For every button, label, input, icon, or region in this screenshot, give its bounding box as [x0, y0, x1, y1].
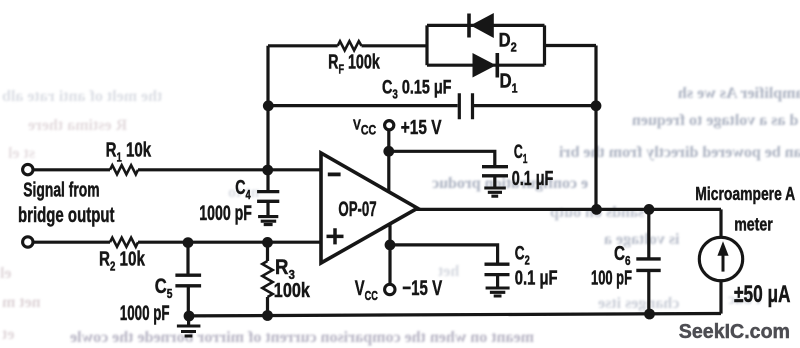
bleed-through mirrored text row H right	[728, 291, 761, 309]
label C1	[514, 142, 528, 166]
junction dot C5 bottom	[184, 311, 195, 322]
capacitor C2 plates	[485, 264, 510, 274]
bleed-through mirrored text row A left	[2, 88, 162, 106]
svg-text:C2: C2	[515, 243, 530, 268]
label R1 10k	[106, 138, 152, 165]
meter arrow head	[717, 241, 728, 256]
diode D1 cathode bar	[495, 53, 499, 78]
svg-text:Microampere A: Microampere A	[695, 184, 795, 204]
label R2 10k	[99, 247, 146, 274]
svg-text:D2: D2	[499, 29, 517, 54]
wire box to right vertical	[545, 44, 597, 47]
svg-text:100k: 100k	[274, 278, 311, 301]
label +-50 uA	[734, 281, 791, 307]
capacitor C5 bottom stub	[187, 286, 190, 316]
svg-text:VCC: VCC	[355, 276, 378, 303]
capacitor C1 bottom stub	[493, 176, 496, 187]
label C6	[614, 242, 631, 268]
svg-text:Signal from: Signal from	[23, 178, 99, 201]
resistor RF zigzag	[338, 41, 362, 50]
ground for C1	[484, 188, 506, 196]
ground for C4	[258, 217, 278, 225]
label 100 pF (C6)	[591, 267, 632, 290]
bleed-through mirrored text row H mid	[598, 295, 679, 313]
label bridge output	[18, 202, 115, 226]
bleed-through mirrored text row D right	[432, 175, 588, 193]
wire R1 to op-amp	[138, 168, 321, 171]
label C2	[515, 243, 530, 268]
junction dot inverting input	[262, 165, 273, 176]
svg-text:1000 pF: 1000 pF	[199, 201, 252, 225]
ground for C2	[486, 288, 510, 296]
label D2	[499, 29, 517, 54]
svg-text:R2 10k: R2 10k	[99, 247, 146, 274]
svg-text:C3 0.15 μF: C3 0.15 μF	[382, 77, 451, 102]
label C3 0.15 uF	[382, 77, 451, 102]
diode D2 cathode bar	[467, 14, 471, 38]
label C4	[235, 176, 251, 203]
bleed-through mirrored text row I bottom	[70, 329, 534, 347]
svg-text:0.1 μF: 0.1 μF	[512, 166, 554, 189]
svg-text:C5: C5	[155, 275, 173, 301]
svg-text:100 pF: 100 pF	[591, 267, 632, 290]
diode box left edge	[425, 25, 428, 65]
svg-text:−15 V: −15 V	[402, 276, 442, 300]
wire VCC+ down to op-amp	[387, 131, 390, 192]
op-amp U1 OP-07 triangle	[321, 153, 418, 263]
capacitor C5 top stub	[186, 242, 189, 274]
label VCC plus	[353, 116, 376, 138]
bottom rail wire	[188, 314, 721, 316]
wire R2 input	[34, 241, 111, 244]
svg-text:C6: C6	[614, 242, 631, 268]
capacitor C6 top stub	[647, 209, 650, 258]
bleed-through mirrored text row C right	[559, 144, 800, 162]
svg-text:D1: D1	[500, 69, 518, 96]
capacitor C4 bottom stub	[266, 202, 269, 216]
meter M1 circle	[699, 237, 742, 280]
bleed-through mirrored text row H left	[2, 294, 41, 312]
diode box right edge	[543, 25, 546, 65]
bleed-through mirrored text row B left	[28, 117, 127, 135]
label D1	[500, 69, 518, 96]
wire R2 to op-amp	[138, 241, 321, 244]
label 100k (R3)	[274, 278, 311, 301]
svg-text:SeekIC.com: SeekIC.com	[679, 321, 790, 343]
bleed-through mirrored text row I left pink	[2, 326, 14, 344]
svg-text:C4: C4	[235, 176, 251, 203]
svg-text:R1 10k: R1 10k	[106, 138, 152, 165]
ground stub for C5	[187, 316, 190, 325]
bleed-through mirrored text row E right	[550, 204, 644, 222]
bleed-through mirrored text row A right	[678, 85, 800, 103]
svg-text:RF 100k: RF 100k	[328, 50, 380, 77]
label R3	[275, 256, 295, 282]
diode D1 body	[473, 53, 497, 78]
bleed-through mirrored text row B right	[632, 112, 798, 130]
junction dot VCC+ C1	[383, 146, 394, 157]
wire C3 right	[474, 104, 596, 107]
svg-text:meter: meter	[734, 215, 773, 235]
svg-text:VCC: VCC	[353, 116, 376, 138]
junction dot C3 left	[263, 100, 274, 111]
resistor R2 zigzag	[110, 238, 138, 247]
label C5	[155, 275, 173, 301]
junction dot C6 bottom	[644, 309, 655, 320]
junction dot VCC- C2	[385, 240, 396, 251]
bleed-through mirrored text row C left	[8, 145, 35, 163]
capacitor C4 plates	[257, 192, 279, 202]
label Signal from	[23, 178, 99, 201]
diode D2 body	[471, 13, 494, 38]
svg-text:1000 pF: 1000 pF	[120, 301, 170, 325]
junction dot R3 top	[262, 237, 273, 248]
input terminal top	[23, 164, 33, 174]
capacitor C1 plates	[482, 167, 508, 176]
svg-text:±50 μA: ±50 μA	[734, 281, 791, 307]
junction dot output node	[591, 204, 602, 215]
VCC+ terminal circle	[385, 121, 394, 130]
op-amp minus input symbol	[328, 172, 341, 176]
svg-text:+15 V: +15 V	[401, 116, 442, 138]
wire RF top left segment	[268, 44, 338, 47]
meter arrow shaft	[722, 252, 725, 272]
label meter	[734, 215, 773, 235]
junction dot C3 right	[591, 100, 602, 111]
wire R1 input	[34, 168, 111, 171]
label RF 100k	[328, 50, 380, 77]
wire RF to diode box	[362, 44, 428, 47]
label 1000 pF (C4)	[199, 201, 252, 225]
label 1000 pF (C5)	[120, 301, 170, 325]
wire right vertical	[594, 46, 597, 210]
diode box top wire	[427, 24, 545, 27]
junction dot C6 top	[644, 204, 655, 215]
bleed-through mirrored text row D mid	[228, 184, 260, 202]
wire VCC- from op-amp down	[388, 224, 391, 284]
wire C3 left	[268, 104, 458, 107]
label Microampere A	[695, 184, 795, 204]
capacitor C3 plates	[459, 93, 472, 119]
wire inverting-node vertical	[266, 46, 269, 170]
SeekIC.com watermark	[679, 321, 790, 343]
meter bottom wire	[719, 282, 722, 314]
capacitor C2 bottom stub	[496, 275, 499, 287]
op-amp plus input symbol	[327, 228, 344, 244]
resistor R3 bottom stub	[266, 297, 269, 316]
bleed-through mirrored text row G left	[0, 265, 12, 283]
wire C2 branch	[390, 245, 498, 263]
resistor R1 zigzag	[110, 165, 138, 174]
input terminal bottom	[23, 237, 33, 247]
meter top wire	[719, 209, 722, 236]
ground for C5	[177, 326, 201, 336]
svg-text:OP-07: OP-07	[338, 197, 376, 221]
op-amp output wire	[416, 208, 721, 211]
label VCC minus	[355, 276, 378, 303]
op-amp label OP-07	[338, 197, 376, 221]
resistor R3 zigzag	[262, 261, 272, 297]
capacitor C6 bottom stub	[647, 271, 650, 314]
capacitor C4 top stub	[266, 170, 269, 191]
svg-text:C1: C1	[514, 142, 528, 166]
bleed-through mirrored text row G mid	[438, 263, 459, 281]
wire C1 branch	[389, 151, 495, 165]
label -15 V	[402, 276, 442, 300]
VCC- terminal circle	[385, 284, 395, 294]
capacitor C5 plates	[175, 275, 201, 286]
diode box bottom wire	[427, 64, 545, 67]
label +15 V	[401, 116, 442, 138]
resistor R3 top stub	[266, 242, 269, 261]
junction dot C5 top	[183, 237, 194, 248]
label 0.1 uF (C1)	[512, 166, 554, 189]
label 0.1 uF (C2)	[515, 266, 558, 289]
svg-text:0.1 μF: 0.1 μF	[515, 266, 558, 289]
junction dot R3 bottom	[262, 310, 273, 321]
bleed-through mirrored text row F right	[604, 231, 680, 249]
capacitor C6 plates	[636, 259, 660, 271]
svg-text:bridge output: bridge output	[18, 202, 115, 226]
